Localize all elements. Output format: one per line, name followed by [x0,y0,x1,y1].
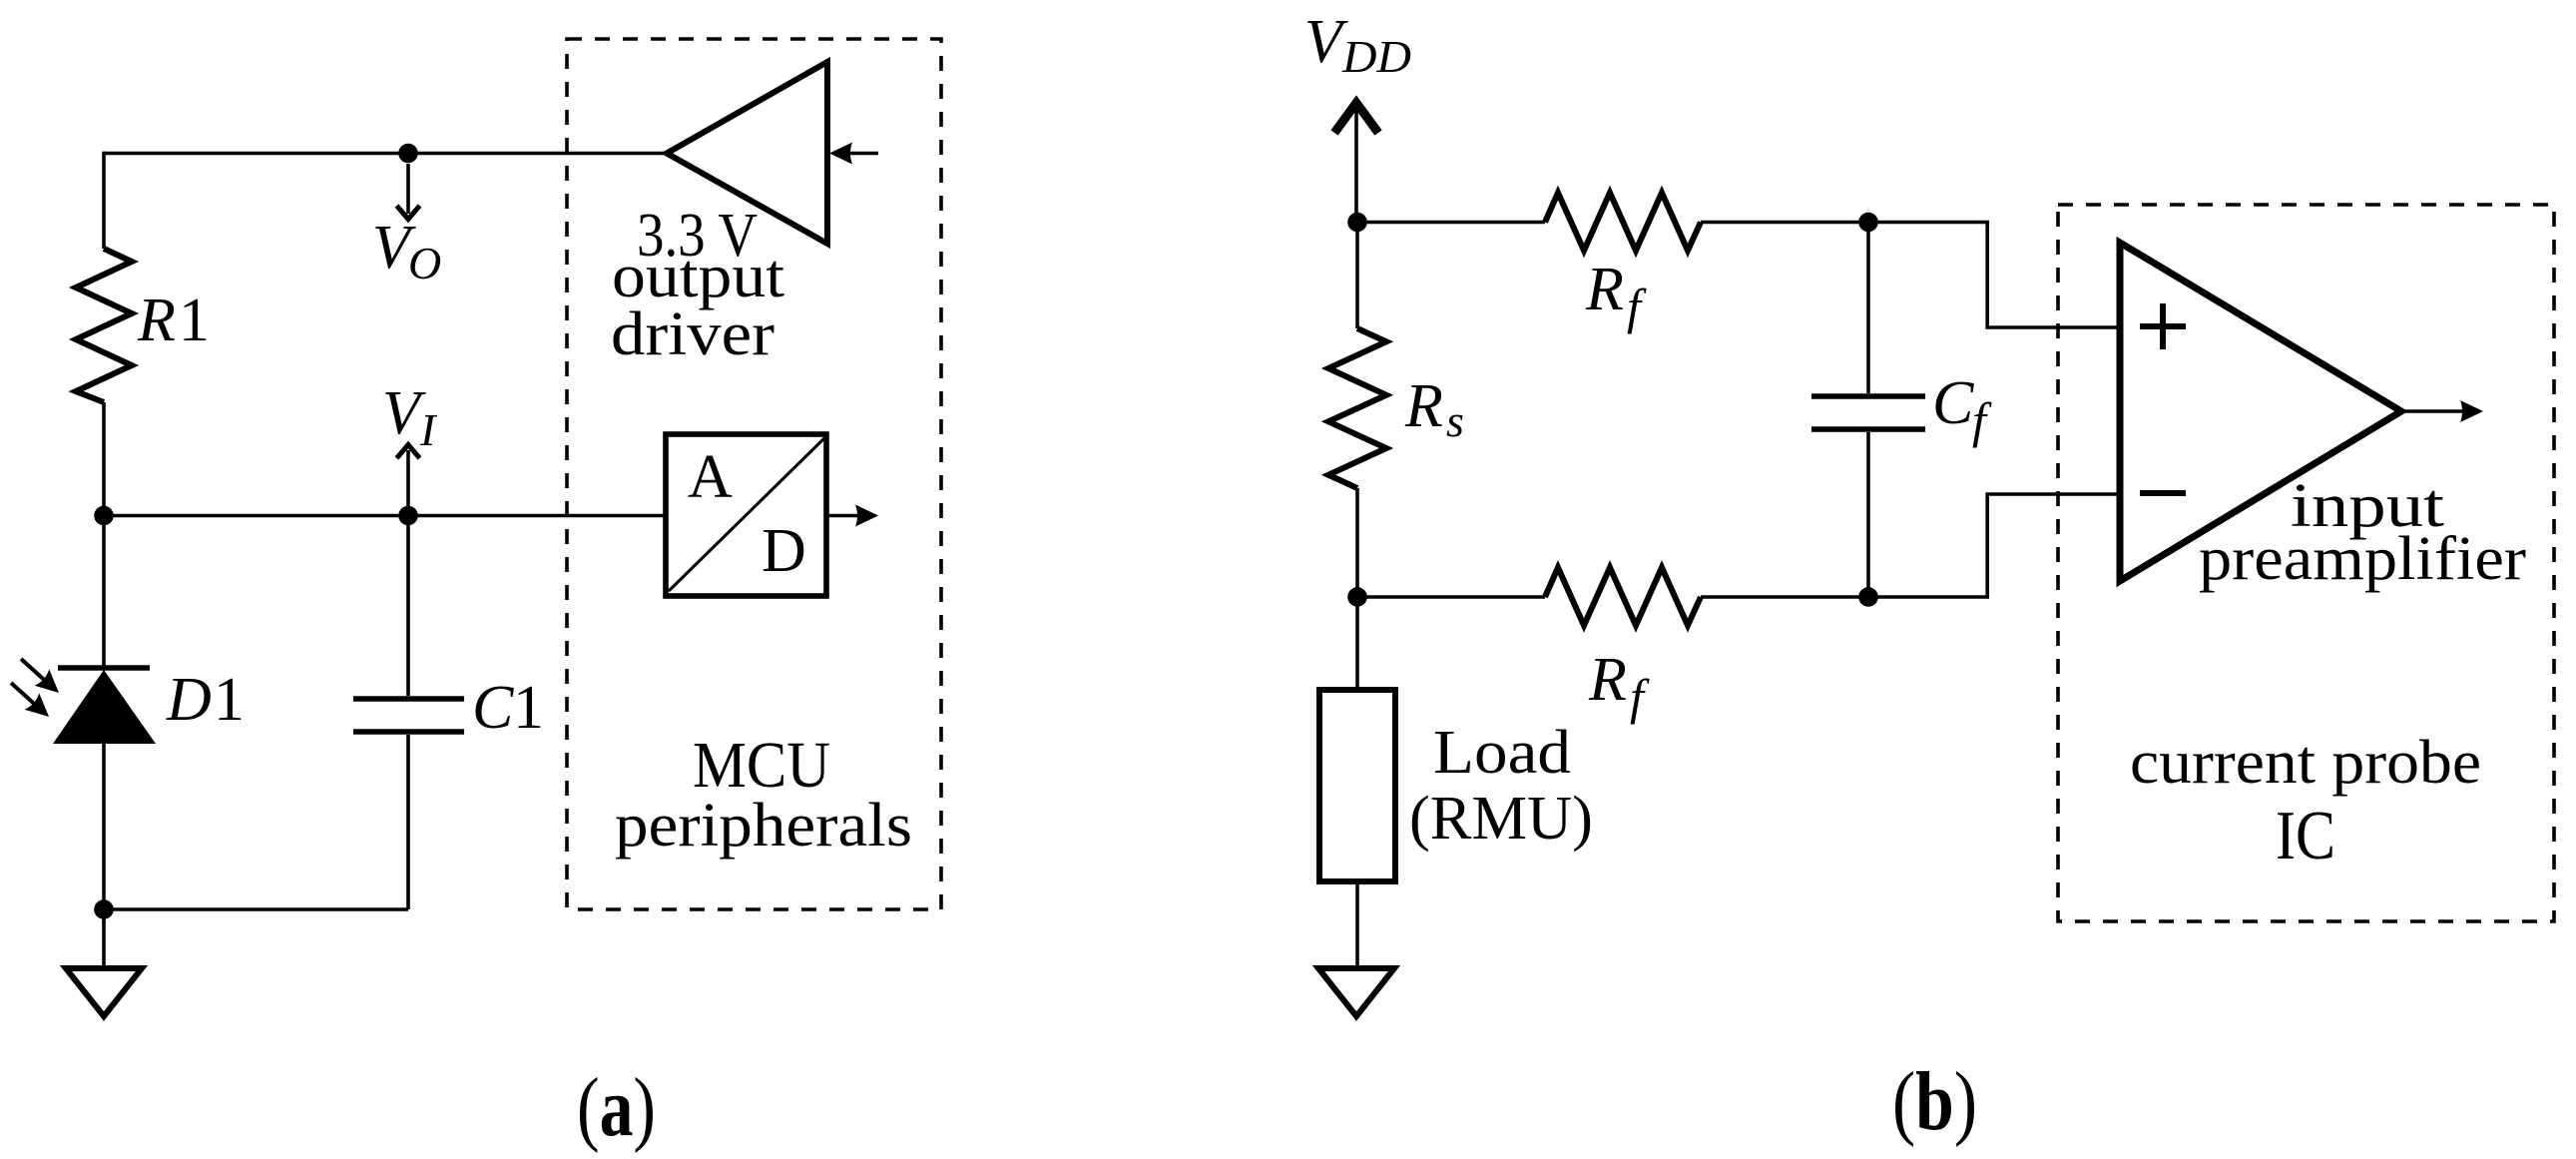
wire bottom rail (b) left part [1357,595,1545,599]
label V_DD [1304,8,1411,82]
photodiode D1 [53,668,156,744]
load resistor box Load (RMU) [1319,690,1395,881]
op-amp input preamplifier [2120,243,2401,581]
svg-text:D: D [166,666,212,734]
svg-text:1: 1 [179,287,210,354]
ground (b) [1318,968,1394,1016]
svg-text:preamplifier: preamplifier [2199,525,2526,593]
svg-text:peripherals: peripherals [615,792,912,860]
label R1 [137,287,210,354]
buffer input arrow [829,143,878,165]
svg-text:C: C [472,674,514,742]
svg-text:IC: IC [2276,798,2335,874]
svg-text:R: R [137,287,176,354]
node bottom-right (b) [1858,587,1878,607]
capacitor Cf [1811,223,1925,598]
node bottom-left (b) [1347,587,1367,607]
light arrow 1 into D1 [21,659,66,701]
arrow V_I up [397,445,420,514]
label Rs [1404,372,1464,446]
dashed box current probe IC [2058,205,2554,921]
svg-text:O: O [408,238,441,289]
wire mid rail (a) [104,514,665,518]
light arrow 2 into D1 [11,683,56,725]
wire to ground (a) [102,909,106,965]
svg-text:(b): (b) [1892,1055,1977,1148]
wire top rail (b) right part [1701,221,1989,225]
label D1 [166,666,245,734]
svg-text:1: 1 [513,674,544,742]
wire bottom rail (a) [104,907,408,911]
label V_O [372,214,441,289]
node bottom-left [94,899,114,919]
ADC output arrow [828,505,878,527]
label Rf top [1585,256,1647,334]
svg-text:Load: Load [1433,719,1571,787]
ADC block A/D [666,434,826,596]
plus input symbol [2140,303,2186,349]
node dot top (V_O node) [398,144,418,164]
resistor Rs [1328,223,1386,598]
label V_I [382,379,438,455]
svg-text:R: R [1404,372,1443,440]
wire load to ground (b) [1355,881,1359,965]
wire step to -input [1987,494,2120,597]
wire step to +input [1987,223,2120,328]
svg-text:D: D [762,517,806,585]
svg-text:A: A [688,443,733,511]
dashed box MCU peripherals [567,39,941,909]
svg-text:driver: driver [611,300,774,368]
svg-text:(a): (a) [577,1061,656,1154]
resistor Rf top [1545,193,1701,251]
node top-left (b) [1347,213,1367,233]
wire left rail to diode [102,516,106,667]
label Cf [1932,369,1992,448]
arrow V_O down [397,164,420,220]
minus input symbol [2140,490,2186,496]
svg-text:DD: DD [1341,31,1411,82]
op-amp U1 3.3V output driver buffer [667,62,827,244]
svg-text:R: R [1588,646,1627,714]
svg-text:C: C [1932,369,1974,437]
resistor Rf bottom [1545,568,1701,626]
resistor R1 [76,249,132,402]
wire bottom rail (b) right part [1701,595,1989,599]
label C1 [472,674,544,742]
power arrow V_DD [1334,103,1378,222]
wire top rail (b) left part [1357,221,1545,225]
node mid-left [94,506,114,526]
wire node to load [1355,597,1359,690]
label Rf bottom [1588,646,1650,725]
node mid-center [398,506,418,526]
op-amp output arrow [2401,400,2483,422]
svg-text:R: R [1585,256,1624,323]
svg-text:1: 1 [214,666,245,734]
svg-text:(RMU): (RMU) [1409,785,1593,853]
svg-text:current probe: current probe [2130,729,2481,797]
wire top rail (a) [104,152,667,156]
svg-text:I: I [419,404,438,455]
ground (a) [66,968,142,1016]
node top-right (b) [1858,213,1878,233]
wire left rail between R1 and mid node [102,402,106,516]
wire left rail upper segment [102,152,106,249]
capacitor C1 [353,516,464,910]
wire diode to bottom node [102,744,106,909]
svg-text:s: s [1446,395,1464,446]
